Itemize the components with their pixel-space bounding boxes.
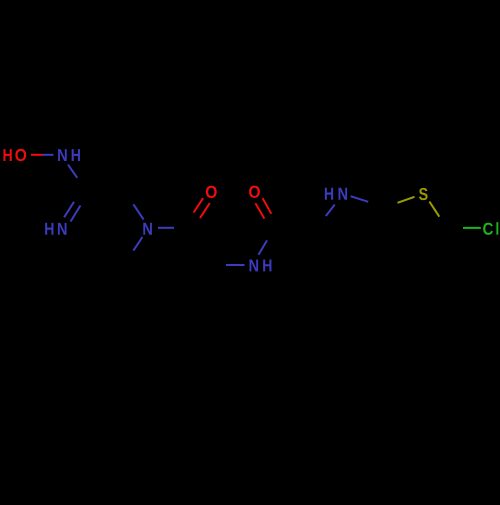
atom label O no.1 bbox=[206, 186, 217, 198]
atom label S (thiophene) bbox=[419, 188, 428, 200]
bond N-C(=O) (N half, blue) bbox=[158, 227, 174, 229]
bond pyrrole N-C2 (N half, blue) bbox=[326, 205, 335, 217]
atom label HN (imine N) bbox=[45, 223, 66, 235]
double bond C=O no.1 (O halves, red) bbox=[194, 198, 210, 218]
bond pyrrole N-C7a (N half, blue) bbox=[351, 196, 369, 202]
bond C7a-S (S half, olive) bbox=[398, 197, 415, 203]
bond O-N (O half, red) bbox=[31, 154, 43, 156]
atom label NH (amidoxime N) bbox=[58, 149, 80, 161]
bond NH-C(=O) no.2 (N half, blue) bbox=[259, 240, 268, 254]
bond C2-Cl (Cl half, green) bbox=[463, 227, 481, 229]
atom label N (tertiary amide N) bbox=[143, 223, 152, 235]
bond CH2-N amide (N half, blue) bbox=[133, 204, 143, 219]
bond S-C2 (S half, olive) bbox=[429, 202, 439, 217]
atom label O no.2 bbox=[249, 186, 260, 198]
bond O-N (N half, blue) bbox=[43, 154, 54, 156]
bond CH-NH (N half, blue) bbox=[226, 264, 245, 266]
atom label HN (pyrrole N) bbox=[325, 188, 347, 200]
double bond C=NH imine (N halves, blue) bbox=[64, 202, 80, 222]
atom label Cl bbox=[483, 222, 498, 235]
bond NH-C (N half, blue) bbox=[68, 165, 77, 178]
atom label NH (anilide N) bbox=[250, 259, 272, 271]
double bond C=O no.2 (O halves, red) bbox=[255, 198, 271, 218]
bond N-CH3 (N half, blue) bbox=[133, 237, 142, 251]
atom label HO (hydroxylamine oxygen) bbox=[3, 149, 26, 161]
